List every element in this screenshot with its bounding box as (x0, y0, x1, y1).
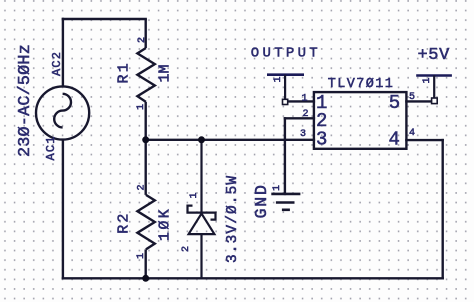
svg-text:1: 1 (422, 77, 433, 83)
wire left lower (AC1 down) (62, 140, 64, 278)
svg-text:1: 1 (136, 253, 147, 259)
svg-text:1M: 1M (156, 64, 173, 82)
svg-text:1: 1 (189, 192, 200, 198)
svg-text:1: 1 (302, 94, 308, 105)
wire pin2 down to ground (284, 118, 286, 194)
svg-text:1: 1 (272, 185, 283, 191)
resistor R2 (137, 195, 154, 278)
junction node R1/R2/pin3 (142, 136, 149, 143)
wire pin4 horizontal (406, 139, 442, 141)
wire right vertical (pin4 down) (442, 140, 444, 278)
svg-text:R2: R2 (115, 211, 132, 233)
terminal +5V (416, 75, 452, 103)
AC source V1 230-AC/50Hz (36, 86, 89, 139)
wire pin2 horizontal (285, 117, 314, 119)
ground (271, 194, 300, 210)
svg-text:1: 1 (273, 76, 284, 82)
wire pin1 horizontal (288, 100, 314, 102)
wire mid (junction to pin3) (146, 139, 314, 141)
svg-text:3: 3 (316, 128, 327, 150)
op-amp U1 TLV7011 box (314, 92, 407, 149)
zener diode D1 (188, 140, 216, 278)
svg-text:2: 2 (303, 109, 309, 120)
terminal OUTPUT (267, 75, 304, 105)
svg-text:+5V: +5V (418, 46, 451, 65)
svg-text:3.3V/Ø.5W: 3.3V/Ø.5W (225, 175, 241, 263)
svg-text:R1: R1 (115, 61, 132, 83)
svg-text:2: 2 (137, 37, 148, 43)
svg-text:3: 3 (300, 129, 306, 140)
svg-text:4: 4 (409, 128, 415, 139)
wire top horizontal (63, 18, 146, 20)
svg-text:1: 1 (136, 104, 147, 110)
wire left upper (AC2 to top) (62, 19, 64, 86)
svg-text:OUTPUT: OUTPUT (251, 45, 321, 61)
wire R2 top stub (144, 140, 146, 195)
junction node bottom rail (142, 275, 149, 282)
svg-text:1ØK: 1ØK (156, 207, 173, 241)
resistor R1 (137, 19, 154, 140)
svg-text:5: 5 (389, 92, 400, 114)
wire bottom rail (63, 277, 443, 279)
svg-text:5: 5 (409, 92, 415, 103)
svg-text:AC1: AC1 (44, 135, 58, 160)
svg-text:4: 4 (389, 128, 400, 150)
wire pin5 horizontal (406, 100, 431, 102)
svg-text:2: 2 (181, 246, 192, 252)
svg-text:23Ø-AC/5ØHz: 23Ø-AC/5ØHz (16, 44, 35, 157)
junction node zener top (198, 136, 205, 143)
svg-text:TLV7Ø11: TLV7Ø11 (328, 77, 395, 92)
svg-text:GND: GND (252, 183, 271, 218)
svg-text:AC2: AC2 (50, 51, 64, 76)
